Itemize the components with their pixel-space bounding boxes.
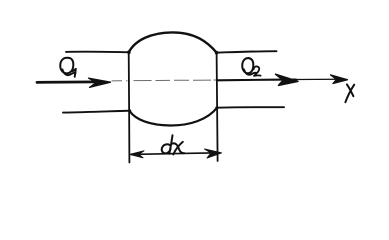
- label Q2 subscript 2: [254, 66, 261, 76]
- wire Q1 flow arrowhead: [89, 78, 111, 87]
- label Q1 letter Q: [60, 58, 73, 74]
- wire bottom-right pipe wall: [217, 106, 284, 109]
- label Q2 tail of Q: [244, 70, 256, 75]
- wire bulge bottom arc: [130, 108, 218, 126]
- wire top-left pipe wall: [66, 51, 129, 54]
- wire dx dimension line: [131, 153, 220, 155]
- node right face of control volume (vertical line x~217): [217, 53, 218, 161]
- label Q2 letter Q: [242, 58, 253, 73]
- node junction ink blobs: [127, 50, 218, 112]
- wire bottom-left pipe wall: [63, 111, 130, 113]
- label dx letter x: [173, 143, 185, 153]
- wire Q1 flow arrow shaft: [37, 81, 104, 84]
- wire dx left arrowhead: [130, 151, 144, 158]
- wire Q2 arrowhead: [276, 74, 299, 85]
- label dx letter d bowl: [162, 144, 171, 153]
- wire bulge top arc: [129, 32, 217, 52]
- wire Q2 / x axis shaft: [218, 78, 296, 81]
- label dx letter d stem: [169, 135, 172, 154]
- label x axis letter x: [347, 84, 354, 96]
- wire x-axis arrowhead: [331, 75, 348, 84]
- wire top-right pipe wall: [217, 51, 277, 52]
- wire center axis dash-dot line: [112, 79, 217, 82]
- label Q1 tail of Q: [63, 70, 76, 76]
- wire dx right arrowhead: [205, 149, 222, 158]
- label Q1 subscript 1: [73, 69, 76, 77]
- node left face of control volume (vertical line x~129): [128, 52, 131, 162]
